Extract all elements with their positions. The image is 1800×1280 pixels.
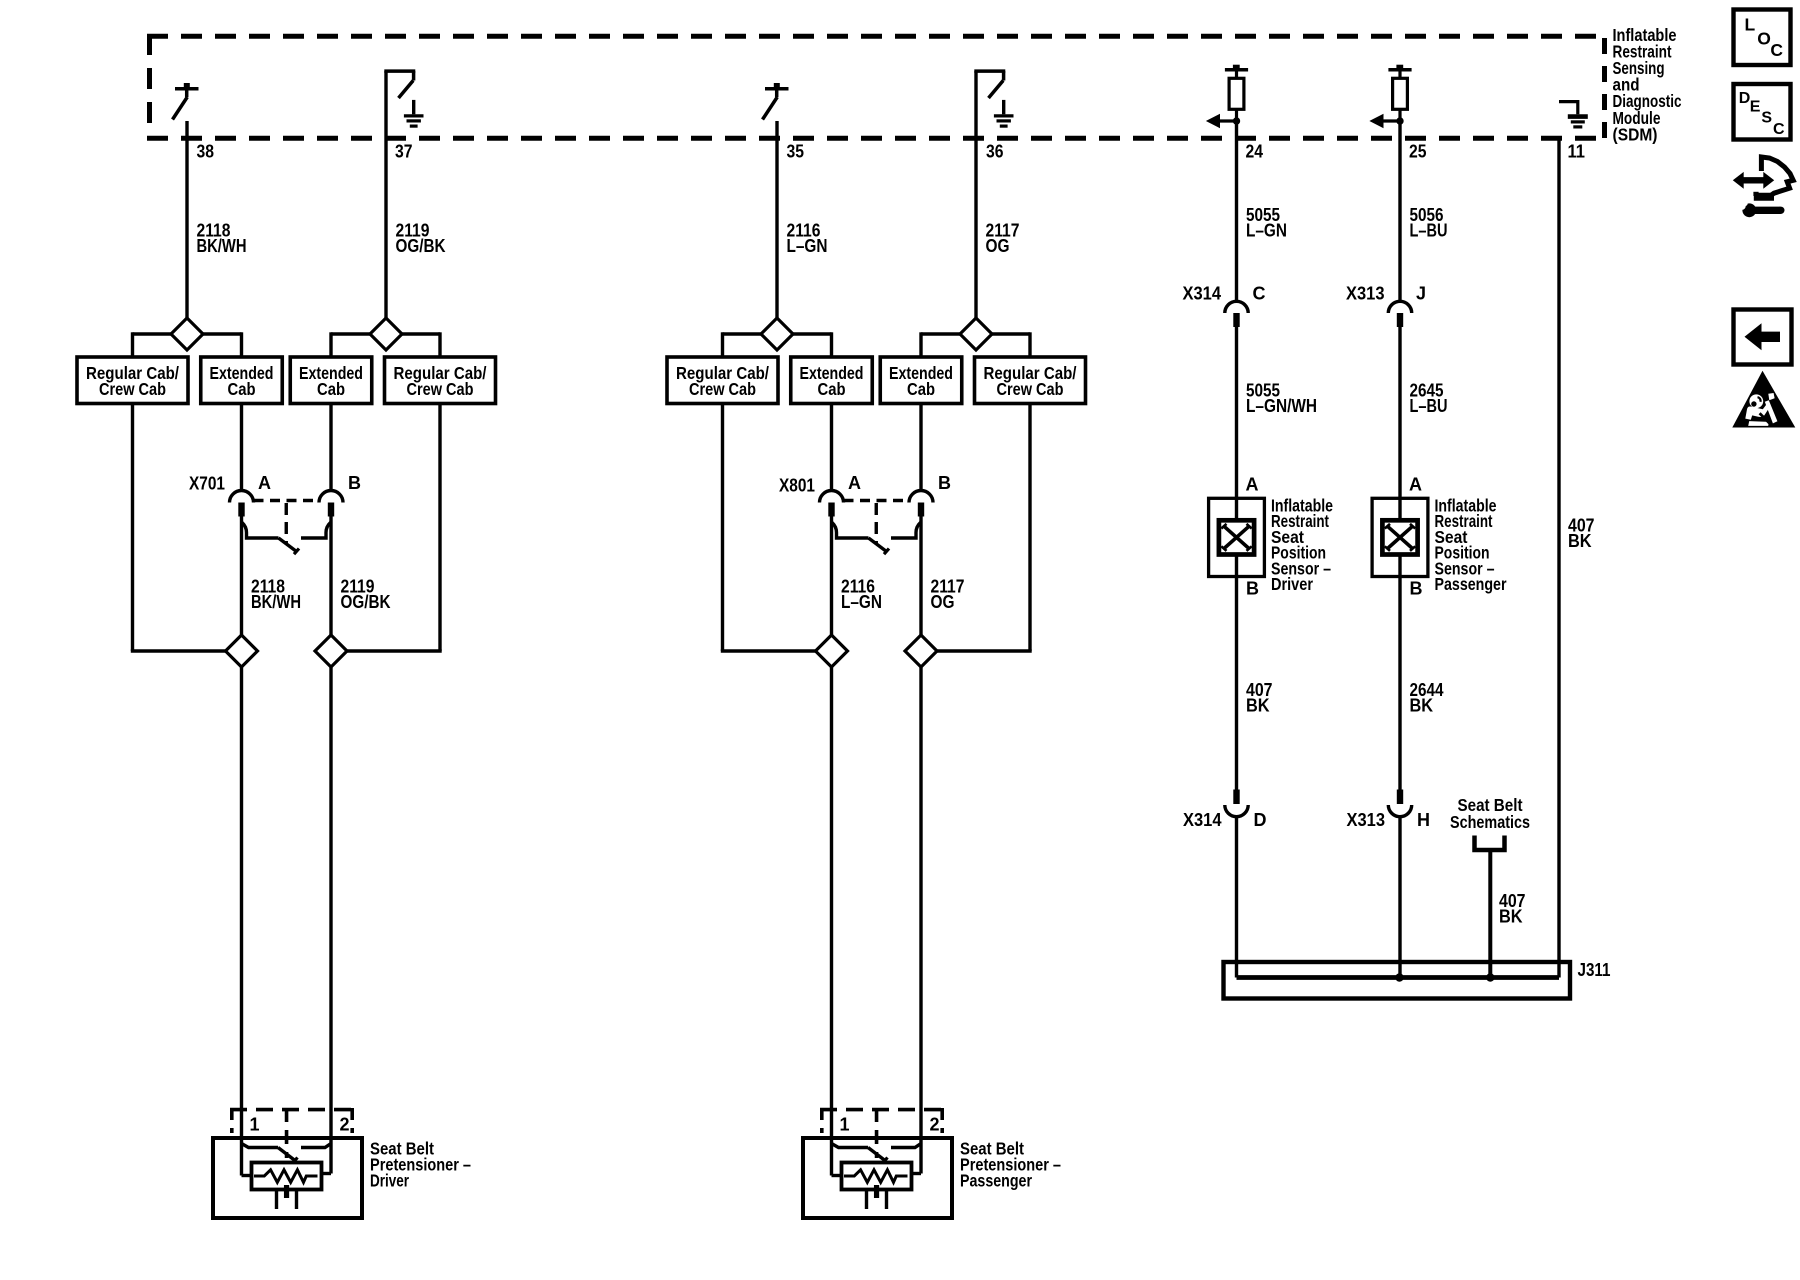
svg-text:OG/BK: OG/BK bbox=[341, 592, 391, 612]
seat belt pretensioner connector (dashed) pins 1 and 2 bbox=[230, 1108, 354, 1112]
svg-text:BK: BK bbox=[1499, 907, 1523, 927]
wire 2116 below connector X801 bbox=[830, 516, 833, 1176]
wire branch 2116 to Extended Cab bbox=[777, 332, 832, 335]
in-line connector X313 terminal J bbox=[1388, 301, 1411, 313]
svg-text:A: A bbox=[1409, 475, 1422, 495]
svg-text:C: C bbox=[1773, 121, 1785, 138]
svg-text:37: 37 bbox=[395, 142, 413, 162]
svg-text:Passenger: Passenger bbox=[1435, 574, 1507, 594]
splice diamond on wire 2119 (upper) bbox=[370, 318, 402, 350]
splice diamond on wire 2116 (upper) bbox=[761, 318, 793, 350]
svg-text:X314: X314 bbox=[1183, 810, 1222, 830]
svg-text:Cab: Cab bbox=[907, 379, 935, 399]
svg-text:L–GN: L–GN bbox=[841, 592, 882, 612]
connector X701 mechanical link (dashed) bbox=[254, 499, 320, 502]
splice diamond on wire 2117 (upper) bbox=[960, 318, 992, 350]
svg-text:B: B bbox=[348, 473, 361, 493]
wire circuit 2119 from SDM pin 37 bbox=[384, 71, 387, 334]
in-line connector X314 terminal D bbox=[1233, 790, 1239, 805]
wire circuit 407 BK (to ground) bbox=[1235, 577, 1238, 790]
svg-text:B: B bbox=[1410, 579, 1423, 599]
svg-text:35: 35 bbox=[787, 142, 805, 162]
wire 2118 below connector X701 bbox=[240, 516, 243, 1176]
SDM internal switch and ground for pin 37 bbox=[384, 71, 423, 126]
wire to ground junction J311 bbox=[1235, 816, 1238, 977]
svg-text:(SDM): (SDM) bbox=[1613, 124, 1658, 144]
option box Extended Cab (left, Driver) bbox=[201, 357, 283, 404]
svg-text:L–GN: L–GN bbox=[1246, 221, 1287, 241]
svg-text:2: 2 bbox=[930, 1115, 940, 1135]
wire branch 2118 to Extended Cab bbox=[187, 332, 242, 335]
svg-text:Crew Cab: Crew Cab bbox=[689, 379, 756, 399]
svg-text:C: C bbox=[1253, 284, 1266, 304]
wire circuit 2118 from SDM pin 38 bbox=[185, 121, 188, 334]
SDM internal driver switch for pin 35 bbox=[763, 83, 789, 120]
wire branch 2116 to Regular Cab/Crew Cab bbox=[723, 332, 778, 335]
svg-text:2: 2 bbox=[340, 1115, 350, 1135]
svg-text:24: 24 bbox=[1246, 142, 1264, 162]
svg-text:X801: X801 bbox=[779, 476, 815, 496]
wire circuit 5055 from SDM pin 24 bbox=[1235, 121, 1238, 301]
wire 2118 Extended Cab leg to connector X701 pin A bbox=[240, 404, 243, 491]
wire circuit 2645 L–BU bbox=[1398, 327, 1401, 498]
svg-text:L–GN: L–GN bbox=[787, 236, 828, 256]
svg-text:Cab: Cab bbox=[818, 379, 846, 399]
svg-text:BK: BK bbox=[1246, 696, 1270, 716]
SDM internal sense resistor with arrow, pin 24 bbox=[1207, 66, 1248, 127]
Inflatable Restraint Sensing and Diagnostic Module (SDM) dashed outline bbox=[147, 34, 1607, 138]
svg-text:C: C bbox=[1770, 40, 1783, 60]
svg-text:J311: J311 bbox=[1578, 960, 1611, 980]
svg-text:Crew Cab: Crew Cab bbox=[99, 379, 166, 399]
svg-text:OG: OG bbox=[931, 592, 955, 612]
Seat Belt Pretensioner - Driver body bbox=[213, 1138, 362, 1218]
svg-text:11: 11 bbox=[1568, 142, 1586, 162]
splice diamond on wire 2118 (lower) bbox=[226, 635, 258, 667]
svg-text:1: 1 bbox=[250, 1115, 260, 1135]
svg-text:BK/WH: BK/WH bbox=[251, 592, 301, 612]
svg-text:36: 36 bbox=[986, 142, 1004, 162]
svg-text:Cab: Cab bbox=[228, 379, 256, 399]
wire to ground junction J311 bbox=[1398, 816, 1401, 977]
svg-text:A: A bbox=[848, 473, 861, 493]
legend icon: LOC box bbox=[1734, 10, 1791, 66]
svg-text:X313: X313 bbox=[1347, 810, 1386, 830]
splice diamond on wire 2116 (lower) bbox=[816, 635, 848, 667]
pretensioner squib resistor bbox=[242, 1174, 252, 1177]
svg-text:X701: X701 bbox=[189, 474, 225, 494]
svg-text:S: S bbox=[1761, 109, 1772, 126]
svg-text:D: D bbox=[1739, 90, 1751, 107]
connector X801 shorting-bar switch bbox=[832, 523, 869, 539]
option box Extended Cab (right, Passenger) bbox=[880, 357, 962, 404]
legend icon: data link connector (arrow and wrench) bbox=[1733, 157, 1793, 217]
wire 2117 Regular Cab/Crew Cab leg down bbox=[1028, 404, 1031, 651]
svg-text:A: A bbox=[258, 473, 271, 493]
svg-text:BK: BK bbox=[1568, 531, 1592, 551]
svg-text:Passenger: Passenger bbox=[960, 1170, 1032, 1190]
wire branch 2117 to Regular Cab/Crew Cab bbox=[976, 332, 1030, 335]
wire 2118 Regular Cab/Crew Cab leg down bbox=[131, 404, 134, 651]
legend icon: DESC box bbox=[1734, 84, 1791, 140]
off-page reference: Seat Belt Schematics bbox=[1450, 795, 1530, 850]
SDM internal ground, pin 11 bbox=[1559, 100, 1588, 127]
svg-text:Schematics: Schematics bbox=[1450, 812, 1530, 832]
svg-text:O: O bbox=[1757, 28, 1771, 48]
in-line connector X801 pin A (female/male halves) bbox=[820, 491, 844, 503]
option box Regular Cab/Crew Cab (left, Driver) bbox=[77, 357, 188, 404]
Inflatable Restraint Seat Position Sensor - Passenger bbox=[1372, 498, 1428, 576]
legend icon: back arrow box bbox=[1734, 310, 1792, 365]
Inflatable Restraint Seat Position Sensor - Driver bbox=[1209, 498, 1265, 576]
wire circuit 5055 L–GN/WH bbox=[1235, 327, 1238, 498]
wire branch 2117 to Extended Cab bbox=[921, 332, 976, 335]
svg-text:E: E bbox=[1750, 98, 1761, 115]
svg-text:D: D bbox=[1254, 810, 1267, 830]
SDM internal switch and ground for pin 36 bbox=[974, 71, 1013, 126]
ground junction block J311 bbox=[1224, 962, 1571, 999]
option box Extended Cab (right, Driver) bbox=[290, 357, 372, 404]
svg-text:OG/BK: OG/BK bbox=[396, 236, 446, 256]
svg-text:L: L bbox=[1745, 15, 1756, 35]
squib igniter legs bbox=[275, 1190, 278, 1210]
wire branch 2119 to Regular Cab/Crew Cab bbox=[386, 332, 440, 335]
splice diamond on wire 2117 (lower) bbox=[905, 635, 937, 667]
wire 2119 Regular Cab/Crew Cab leg down bbox=[438, 404, 441, 651]
svg-text:J: J bbox=[1416, 284, 1426, 304]
option box Extended Cab (left, Passenger) bbox=[791, 357, 873, 404]
connector X701 shorting-bar switch bbox=[242, 523, 279, 539]
svg-text:Driver: Driver bbox=[370, 1170, 409, 1190]
svg-text:Crew Cab: Crew Cab bbox=[997, 379, 1064, 399]
pretensioner shorting bar bbox=[242, 1144, 279, 1148]
option box Regular Cab/Crew Cab (right, Driver) bbox=[385, 357, 496, 404]
splice diamond on wire 2119 (lower) bbox=[315, 635, 347, 667]
SDM internal driver switch for pin 38 bbox=[173, 83, 199, 120]
svg-text:B: B bbox=[938, 473, 951, 493]
svg-text:Crew Cab: Crew Cab bbox=[407, 379, 474, 399]
svg-text:L–BU: L–BU bbox=[1410, 221, 1448, 241]
wire 2116 Extended Cab leg to connector X801 pin A bbox=[830, 404, 833, 491]
SDM internal sense resistor with arrow, pin 25 bbox=[1371, 66, 1412, 127]
seat belt pretensioner connector (dashed) pins 1 and 2 bbox=[820, 1108, 944, 1112]
junction dot at schematics wire on J311 bus bbox=[1486, 973, 1494, 981]
wire 2119 Extended Cab leg to connector X701 pin B bbox=[329, 404, 332, 491]
pretensioner squib resistor bbox=[832, 1174, 842, 1177]
wire 2117 below connector X801 bbox=[919, 516, 922, 1174]
svg-text:L–GN/WH: L–GN/WH bbox=[1246, 396, 1317, 416]
svg-text:BK/WH: BK/WH bbox=[197, 236, 247, 256]
in-line connector X801 pin B (female/male halves) bbox=[909, 491, 933, 503]
in-line connector X701 pin A (female/male halves) bbox=[230, 491, 254, 503]
option box Regular Cab/Crew Cab (left, Passenger) bbox=[667, 357, 778, 404]
wire circuit 5056 from SDM pin 25 bbox=[1398, 121, 1401, 301]
wire circuit 407 BK from SDM pin 11 bbox=[1557, 138, 1560, 978]
wire circuit 2116 from SDM pin 35 bbox=[775, 121, 778, 334]
svg-text:1: 1 bbox=[840, 1115, 850, 1135]
wire circuit 2117 from SDM pin 36 bbox=[974, 71, 977, 334]
svg-text:X313: X313 bbox=[1346, 284, 1385, 304]
wire 2119 below connector X701 bbox=[329, 516, 332, 1174]
wire branch 2119 to Extended Cab bbox=[331, 332, 386, 335]
svg-text:X314: X314 bbox=[1183, 284, 1222, 304]
in-line connector X314 terminal C bbox=[1225, 301, 1248, 313]
option box Regular Cab/Crew Cab (right, Passenger) bbox=[975, 357, 1086, 404]
splice diamond on wire 2118 (upper) bbox=[171, 318, 203, 350]
pretensioner shorting bar bbox=[832, 1144, 869, 1148]
wire 2116 Regular Cab/Crew Cab leg down bbox=[721, 404, 724, 651]
svg-text:38: 38 bbox=[197, 142, 215, 162]
svg-text:BK: BK bbox=[1410, 696, 1434, 716]
junction dot at X313 wire on J311 bus bbox=[1395, 973, 1403, 981]
wire circuit 2644 BK (to ground) bbox=[1398, 577, 1401, 790]
svg-text:L–BU: L–BU bbox=[1410, 396, 1448, 416]
wire 2117 Extended Cab leg to connector X801 pin B bbox=[919, 404, 922, 491]
svg-text:H: H bbox=[1417, 810, 1430, 830]
svg-text:A: A bbox=[1246, 475, 1259, 495]
SDM module name label bbox=[1613, 25, 1682, 144]
wire circuit 407 BK from Seat Belt Schematics bbox=[1488, 850, 1492, 978]
squib igniter legs bbox=[865, 1190, 868, 1210]
Seat Belt Pretensioner - Passenger body bbox=[803, 1138, 952, 1218]
connector X801 mechanical link (dashed) bbox=[844, 499, 910, 502]
svg-text:B: B bbox=[1246, 579, 1259, 599]
svg-text:25: 25 bbox=[1409, 142, 1427, 162]
in-line connector X701 pin B (female/male halves) bbox=[319, 491, 343, 503]
svg-text:Driver: Driver bbox=[1271, 574, 1313, 594]
svg-text:OG: OG bbox=[986, 236, 1010, 256]
wire branch 2118 to Regular Cab/Crew Cab bbox=[133, 332, 188, 335]
in-line connector X313 terminal H bbox=[1397, 790, 1403, 805]
legend icon: seat belt caution triangle bbox=[1732, 371, 1795, 428]
svg-text:Cab: Cab bbox=[317, 379, 345, 399]
